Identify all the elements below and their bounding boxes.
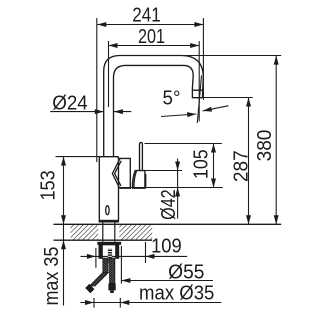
arrowhead 201 right xyxy=(190,43,199,48)
arrowhead dia42 upper xyxy=(175,162,180,171)
svg-text:Ø55: Ø55 xyxy=(168,261,204,283)
arrowhead dia42 lower xyxy=(175,188,180,197)
svg-text:Ø24: Ø24 xyxy=(52,92,88,114)
wire ext tick max35 left xyxy=(93,298,95,308)
wire dim line 287 xyxy=(248,98,250,225)
arrowhead 380 bottom xyxy=(274,215,279,224)
wire dim line 201 xyxy=(109,45,200,47)
wire ext line 241 right (spout max) xyxy=(202,18,204,100)
wire dim line 105 xyxy=(213,144,215,188)
arrowhead 109 right xyxy=(146,254,155,259)
svg-text:5°: 5° xyxy=(163,88,181,110)
arrowhead 153 bottom xyxy=(61,215,66,224)
arrowhead 5deg right xyxy=(203,107,212,112)
svg-text:109: 109 xyxy=(151,235,182,257)
wire ext line 105 top (lever top) xyxy=(145,143,222,145)
hose left diagonal section xyxy=(90,273,109,286)
arrowhead max dia35 right xyxy=(120,300,129,305)
arrowhead 105 top xyxy=(211,144,216,153)
arrowhead 105 bottom xyxy=(211,179,216,188)
arrowhead 201 left xyxy=(109,43,118,48)
arrowhead 241 right xyxy=(194,22,203,27)
wire outlet extension to 287 xyxy=(194,97,253,99)
hose right end connector xyxy=(108,283,115,290)
svg-text:287: 287 xyxy=(230,150,252,182)
spout inner profile xyxy=(114,65,194,156)
svg-text:241: 241 xyxy=(132,4,161,26)
wire dim line diameter 24 right part xyxy=(114,111,131,113)
mounting nut right wall xyxy=(115,245,119,258)
handle cone xyxy=(112,158,130,188)
handle hub inner double line xyxy=(134,171,137,189)
wire dim line 241 xyxy=(97,24,203,26)
svg-text:max 35: max 35 xyxy=(41,247,63,306)
handle cone inner double lines xyxy=(115,161,122,186)
arrowhead max dia35 left xyxy=(85,300,94,305)
arrowhead 5deg left xyxy=(187,112,196,117)
svg-text:380: 380 xyxy=(254,130,276,162)
wire ext line diameter 55 (flange edge) xyxy=(120,246,122,284)
wire ext line 201 left (riser axis) xyxy=(108,41,110,107)
wire dim line 380 xyxy=(275,56,277,225)
arrowhead 109 left xyxy=(87,254,96,259)
arrowhead dia24 left xyxy=(95,109,104,114)
wire dim line diameter 42 xyxy=(177,159,179,219)
arrowhead max35 lower up xyxy=(61,240,66,249)
svg-text:max Ø35: max Ø35 xyxy=(139,283,214,305)
wire ext line 109 right xyxy=(145,242,147,263)
spout outer profile xyxy=(104,56,204,157)
wire ext line 241 left (body rear) xyxy=(96,18,98,162)
wire spout top extension to 380 xyxy=(120,55,281,57)
mounting washer diameter 55 xyxy=(97,242,121,245)
arrowhead dia24 right xyxy=(114,109,123,114)
body outline xyxy=(99,157,118,220)
arrowhead dia55 xyxy=(121,278,130,283)
svg-text:153: 153 xyxy=(37,170,59,200)
threaded tube end xyxy=(108,249,112,263)
wire dim line 153 and max 35 xyxy=(63,157,65,306)
mounting nut left wall xyxy=(99,245,102,258)
body eco oval mark xyxy=(106,206,109,215)
lever rod xyxy=(140,143,143,171)
arrowhead 153 top xyxy=(61,157,66,166)
wire dim line 109 xyxy=(81,255,188,257)
mounting nut outline xyxy=(99,245,119,258)
svg-text:201: 201 xyxy=(138,26,165,48)
wire ext line 109 left xyxy=(95,248,97,268)
wire dim line diameter 55 xyxy=(121,280,213,282)
countertop hatch right block xyxy=(119,224,152,240)
arrowhead 287 top xyxy=(246,98,251,107)
handle hub step xyxy=(144,175,147,189)
wire ext line 153 top (body top) xyxy=(56,156,100,158)
arrowhead 380 top xyxy=(274,56,279,65)
hose left end connector xyxy=(85,284,94,293)
wire dim line max diameter 35 xyxy=(80,302,221,304)
wire dim line diameter 24 left part xyxy=(50,111,104,113)
wire ext tick max35 right xyxy=(119,298,121,308)
aerator tip box xyxy=(192,90,202,98)
threaded shank through countertop xyxy=(103,223,115,242)
svg-text:105: 105 xyxy=(191,149,213,179)
wire ext line diameter 42 upper xyxy=(145,170,182,172)
hose left vertical section xyxy=(103,258,108,272)
wire ext line 201 right (outlet axis) xyxy=(198,41,200,121)
wire leader 5 deg right xyxy=(203,106,229,111)
arrowhead 241 left xyxy=(97,22,106,27)
body base flange xyxy=(99,220,120,223)
svg-text:Ø42: Ø42 xyxy=(158,189,180,220)
wire leader 5 deg left xyxy=(161,114,196,117)
countertop hatch left block xyxy=(71,224,99,240)
wire ext line diameter 42 lower and 105 bottom xyxy=(119,187,223,189)
handle hub xyxy=(132,171,144,189)
countertop section top surface xyxy=(54,223,282,225)
arrowhead 287 bottom xyxy=(246,215,251,224)
countertop section bottom surface xyxy=(54,239,153,241)
hose right connector tail xyxy=(110,290,114,293)
wire tilted outlet axis 5 deg xyxy=(197,76,201,124)
hose right vertical section xyxy=(110,258,115,283)
